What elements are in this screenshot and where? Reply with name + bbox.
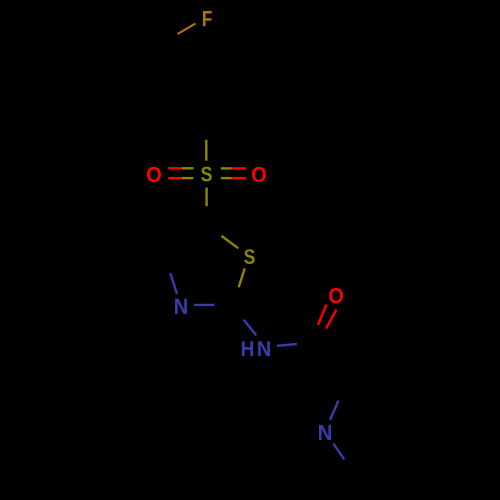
wire S2=O3 double bond lower line, sulfur half olive	[182, 177, 194, 179]
wire bond C5ring-S1ring (sulfur half diagonal)	[222, 236, 239, 248]
atom N amide label HN	[242, 341, 253, 356]
wire bond N11-C12 methyl (nitrogen half diagonal)	[333, 444, 344, 460]
atom S2 sulfonyl label	[201, 167, 212, 182]
wire S2=O4 double bond lower line, sulfur half olive	[221, 177, 232, 179]
wire bond S2-C5ring (sulfur half, below sulfonyl S)	[205, 188, 207, 207]
wire bond C7-S2 (sulfur half, above sulfonyl S)	[205, 140, 207, 161]
atom O3 label (left sulfonyl oxygen)	[147, 167, 161, 182]
wire bond S1ring-C2ring (sulfur half diagonal)	[239, 268, 245, 287]
atom F1 label	[203, 11, 212, 26]
wire C8=O9 double bond left line (oxygen half red)	[318, 305, 326, 325]
atom N3 thiazole ring label	[175, 299, 187, 314]
atom N11 amine label	[319, 425, 331, 440]
wire bond C10-N11 (nitrogen half diagonal)	[330, 401, 338, 420]
wire bond F1-C6 (fluorine half)	[178, 24, 196, 35]
wire bond NH-C8 carbonyl (nitrogen half horizontal)	[277, 344, 297, 346]
atom S1 thiazole ring label	[244, 249, 255, 264]
wire bond N3-C4ring (nitrogen half diagonal)	[170, 273, 177, 294]
wire bond N3-C2ring (nitrogen half horizontal)	[194, 304, 214, 306]
atom O9 carbonyl oxygen label	[329, 288, 343, 303]
wire C8=O9 double bond right line (oxygen half red)	[326, 309, 336, 328]
wire bond NH-C2ring (nitrogen half diagonal)	[244, 320, 257, 336]
wire S2=O3 double bond upper line, oxygen half red	[168, 167, 182, 169]
wire S2=O3 double bond upper line, sulfur half olive	[182, 167, 194, 169]
atom O4 label (right sulfonyl oxygen)	[252, 167, 266, 182]
wire S2=O4 double bond upper line, sulfur half olive	[221, 167, 232, 169]
wire S2=O3 double bond lower line, oxygen half red	[168, 177, 182, 179]
wire S2=O4 double bond lower line, oxygen half red	[232, 177, 246, 179]
wire S2=O4 double bond upper line, oxygen half red	[232, 167, 246, 169]
